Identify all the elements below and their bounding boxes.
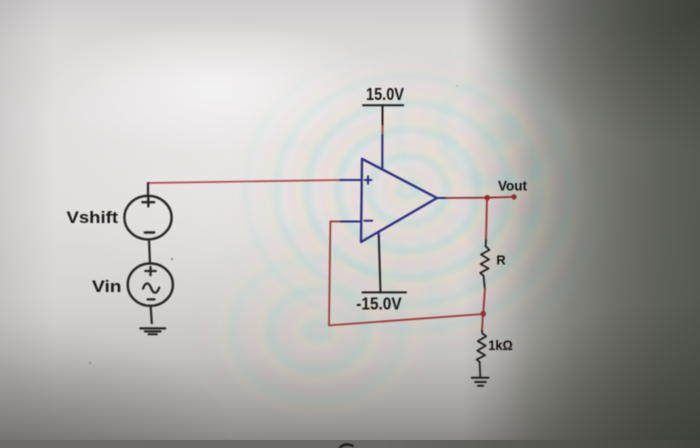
wire red junction2 down to 1k	[482, 314, 483, 331]
svg-text:Vout: Vout	[498, 177, 527, 193]
ground under Vin	[140, 328, 165, 334]
ground right	[472, 378, 489, 386]
resistor R	[480, 240, 489, 288]
op-amp U1 triangle	[361, 159, 437, 242]
wire red feedback left vertical	[329, 222, 330, 326]
svg-text:Vshift: Vshift	[67, 208, 119, 227]
power stem black top	[382, 105, 384, 126]
photo artifact curl bottom centre	[339, 444, 353, 448]
svg-text:1kΩ: 1kΩ	[488, 338, 513, 353]
wire red R to junction2	[483, 288, 485, 313]
output pin blue	[437, 197, 446, 199]
svg-text:-15.0V: -15.0V	[356, 294, 402, 314]
power rail -15V bar	[363, 291, 407, 293]
power pin blue top	[381, 135, 383, 169]
power pin blue bottom	[378, 232, 380, 237]
resistor 1k	[477, 331, 487, 377]
wire red junction down to R	[486, 198, 487, 241]
svg-text:Vin: Vin	[92, 277, 122, 296]
svg-text:15.0V: 15.0V	[366, 84, 404, 104]
voltage source Vshift	[124, 196, 171, 240]
wire black between sources	[149, 239, 150, 263]
dust specks	[89, 85, 458, 442]
wire red top: Vshift plus to op-amp plus input	[148, 180, 341, 183]
pin plus input blue	[341, 179, 362, 181]
power rail +15V bar	[363, 104, 403, 106]
svg-text:R: R	[496, 253, 505, 268]
wire black stub Vshift top	[147, 183, 149, 197]
junction node Vout	[485, 195, 490, 200]
op-amp plus input marker	[365, 176, 372, 183]
power stem black bottom	[379, 237, 381, 293]
wire red output to junction	[446, 197, 487, 199]
pin minus input blue	[340, 220, 361, 222]
wire red feedback bottom	[329, 314, 483, 325]
junction node feedback	[480, 311, 486, 317]
wire red feedback to minus pin	[330, 221, 340, 223]
op-amp minus input marker	[364, 220, 372, 222]
voltage source Vin (AC)	[128, 263, 173, 305]
power wire red segment top	[382, 126, 384, 135]
wire black Vin to ground	[151, 306, 152, 324]
bottom dark bezel band	[0, 440, 700, 448]
terminal dot Vout	[511, 194, 516, 199]
wire red junction to Vout end	[487, 196, 514, 199]
